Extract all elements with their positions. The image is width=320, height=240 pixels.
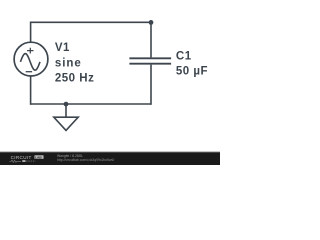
- watermark bar: [0, 151, 220, 165]
- watermark title text: [57, 154, 83, 158]
- wire C1 top lead: [150, 22, 152, 57]
- junction node top right: [149, 20, 154, 25]
- capacitor C1: [129, 58, 171, 63]
- ground: [54, 104, 78, 130]
- svg-text:50 µF: 50 µF: [176, 65, 208, 77]
- watermark url text: [57, 158, 114, 162]
- label V1: [55, 42, 70, 54]
- svg-text:LAB: LAB: [35, 155, 42, 159]
- svg-text:sine: sine: [55, 57, 82, 69]
- junction node ground tap: [64, 102, 69, 107]
- value V1 250 Hz: [55, 73, 94, 85]
- svg-text:250 Hz: 250 Hz: [55, 73, 94, 85]
- svg-text:C1: C1: [176, 50, 192, 62]
- value V1 sine: [55, 57, 82, 69]
- CircuitLab logo: [10, 155, 44, 162]
- wire left bottom stub (V1 bottom to bottom wire): [30, 76, 32, 105]
- wire left top stub (top wire down to V1): [30, 22, 32, 43]
- value C1 50 µF: [176, 65, 208, 77]
- voltage source V1: [14, 42, 48, 76]
- wire top (V1 top to C1 top): [31, 21, 151, 23]
- svg-text:V1: V1: [55, 42, 70, 54]
- svg-text:CIRCUIT: CIRCUIT: [11, 155, 32, 160]
- wire bottom (V1 bottom to C1 bottom): [31, 103, 151, 105]
- label C1: [176, 50, 192, 62]
- wire C1 bottom lead: [150, 65, 152, 105]
- svg-text:http://circuitlab.com/c4x3q99x: http://circuitlab.com/c4x3q99x2bz5w6/: [57, 158, 114, 162]
